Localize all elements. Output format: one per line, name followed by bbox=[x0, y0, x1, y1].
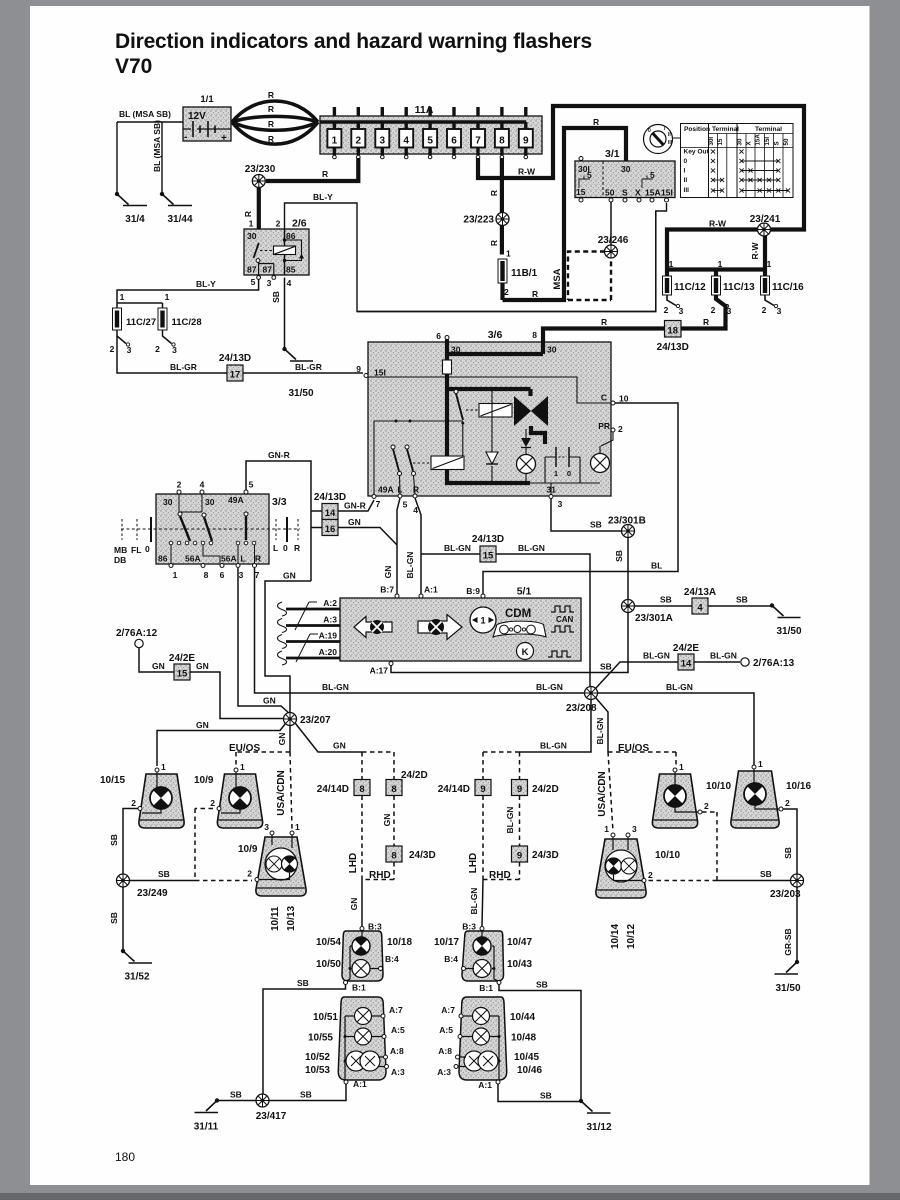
svg-text:4: 4 bbox=[200, 480, 205, 490]
connector 23/230 bbox=[252, 175, 265, 188]
svg-text:BL-GN: BL-GN bbox=[444, 543, 471, 553]
wire BL-Y relay pin2 to 3/1 pin 15I bbox=[285, 203, 667, 312]
svg-text:31/12: 31/12 bbox=[586, 1122, 611, 1133]
svg-text:9: 9 bbox=[523, 136, 529, 147]
svg-text:A:1: A:1 bbox=[478, 1080, 492, 1090]
svg-text:1: 1 bbox=[718, 259, 723, 269]
turn signal switch 3/3 bbox=[114, 480, 300, 581]
svg-text:B:9: B:9 bbox=[466, 586, 480, 596]
svg-text:56A: 56A bbox=[221, 554, 237, 564]
svg-text:0: 0 bbox=[145, 544, 150, 554]
svg-text:A:5: A:5 bbox=[391, 1025, 405, 1035]
svg-text:10/16: 10/16 bbox=[786, 781, 811, 792]
svg-text:23/208: 23/208 bbox=[566, 703, 597, 714]
svg-text:11B/1: 11B/1 bbox=[511, 268, 538, 279]
svg-text:K: K bbox=[522, 647, 529, 658]
wire BL (MSA SB) battery to grounds bbox=[117, 122, 183, 193]
svg-text:180: 180 bbox=[115, 1150, 135, 1164]
svg-text:10/17: 10/17 bbox=[434, 937, 459, 948]
connector 23/223 bbox=[496, 213, 509, 226]
svg-text:R: R bbox=[489, 190, 499, 196]
fuse 4 (11A) bbox=[399, 107, 413, 159]
svg-text:Position: Position bbox=[684, 126, 710, 133]
svg-text:X: X bbox=[635, 188, 641, 198]
svg-text:R: R bbox=[601, 317, 607, 327]
svg-text:49A: 49A bbox=[228, 495, 244, 505]
connector 23/207 bbox=[284, 713, 297, 726]
svg-text:B:4: B:4 bbox=[385, 954, 399, 964]
svg-text:15I: 15I bbox=[374, 368, 386, 378]
svg-text:Key Out: Key Out bbox=[684, 149, 710, 156]
front left indicator 10/15 bbox=[100, 762, 184, 828]
svg-text:87: 87 bbox=[247, 265, 257, 275]
svg-text:10/48: 10/48 bbox=[511, 1033, 536, 1044]
svg-text:R: R bbox=[268, 119, 274, 129]
svg-text:30: 30 bbox=[621, 164, 631, 174]
svg-text:5/1: 5/1 bbox=[517, 586, 532, 598]
svg-text:+: + bbox=[221, 133, 227, 144]
svg-text:PR: PR bbox=[598, 421, 610, 431]
wire SB 10/54 B:1 to 23/417 bbox=[263, 985, 346, 1095]
side marker lamp 10/17 (10/47 10/43) bbox=[434, 922, 532, 994]
svg-text:16: 16 bbox=[325, 524, 336, 535]
svg-text:24/2E: 24/2E bbox=[169, 653, 195, 664]
svg-text:10/50: 10/50 bbox=[316, 959, 341, 970]
svg-text:A:2: A:2 bbox=[323, 598, 337, 608]
svg-text:12V: 12V bbox=[188, 111, 206, 122]
svg-text:2/76A:13: 2/76A:13 bbox=[753, 658, 795, 669]
svg-text:1/1: 1/1 bbox=[200, 94, 214, 105]
svg-text:FL: FL bbox=[131, 545, 141, 555]
svg-text:L: L bbox=[240, 554, 245, 564]
svg-text:24/14D: 24/14D bbox=[438, 784, 470, 795]
svg-text:GN: GN bbox=[277, 733, 287, 746]
svg-text:R: R bbox=[255, 554, 261, 564]
svg-text:BL-GN: BL-GN bbox=[405, 552, 415, 579]
svg-text:GN-R: GN-R bbox=[268, 450, 290, 460]
svg-text:1: 1 bbox=[173, 570, 178, 580]
svg-text:31/52: 31/52 bbox=[124, 972, 149, 983]
svg-text:LHD: LHD bbox=[348, 853, 359, 874]
svg-text:A:1: A:1 bbox=[424, 585, 438, 595]
wire SB 23/301B to 23/301A bbox=[627, 538, 629, 600]
svg-text:3: 3 bbox=[264, 822, 269, 832]
svg-text:4: 4 bbox=[697, 603, 703, 614]
svg-text:A:8: A:8 bbox=[390, 1046, 404, 1056]
ground 31/11 bbox=[194, 1098, 219, 1132]
svg-text:15: 15 bbox=[483, 551, 494, 562]
svg-text:0: 0 bbox=[684, 158, 688, 165]
svg-text:SB: SB bbox=[109, 834, 119, 846]
wire SB 23/417 to ground 31/11 bbox=[217, 1100, 256, 1102]
svg-text:III: III bbox=[684, 187, 690, 194]
svg-text:30: 30 bbox=[205, 497, 215, 507]
wire GN 3/6 pin L to CDM B:7 bbox=[397, 498, 400, 594]
svg-text:R: R bbox=[268, 134, 274, 144]
wire GR-SB 23/203 to ground 31/50 bbox=[796, 887, 798, 962]
svg-text:5: 5 bbox=[427, 136, 433, 147]
svg-text:1: 1 bbox=[480, 616, 485, 626]
svg-text:31/50: 31/50 bbox=[775, 983, 800, 994]
wire BL-GN branch to 15 24/13D to 23/208 bbox=[421, 554, 590, 687]
wire BL-Y relay pin5 to fuses 11C/27 11C/28 bbox=[117, 280, 259, 309]
svg-text:DB: DB bbox=[114, 555, 126, 565]
connector 23/246 bbox=[605, 245, 618, 258]
fuse 11C/27 bbox=[110, 308, 156, 355]
fuse 7 (11A) bbox=[471, 107, 485, 159]
svg-text:BL-GN: BL-GN bbox=[505, 807, 515, 834]
svg-text:BL-GN: BL-GN bbox=[643, 651, 670, 661]
wire SB 10/17 B:1 to ground net bbox=[499, 985, 581, 1101]
wire MSA dashed 23/246 bbox=[568, 252, 611, 301]
svg-text:85: 85 bbox=[286, 265, 296, 275]
svg-text:15A: 15A bbox=[755, 134, 762, 146]
svg-text:BL-GR: BL-GR bbox=[170, 362, 197, 372]
connector 16 24/13D bbox=[322, 520, 338, 536]
svg-text:1: 1 bbox=[295, 822, 300, 832]
svg-text:B:4: B:4 bbox=[444, 954, 458, 964]
svg-text:GN: GN bbox=[349, 898, 359, 911]
svg-text:10/44: 10/44 bbox=[510, 1012, 535, 1023]
svg-text:II: II bbox=[684, 177, 688, 184]
svg-text:3: 3 bbox=[267, 278, 272, 288]
svg-text:R: R bbox=[703, 317, 709, 327]
svg-text:SB: SB bbox=[300, 1090, 312, 1100]
svg-text:BL (MSA SB): BL (MSA SB) bbox=[119, 109, 171, 119]
svg-text:1: 1 bbox=[679, 762, 684, 772]
front right indicator 10/10 bbox=[652, 762, 731, 828]
svg-text:7: 7 bbox=[376, 499, 381, 509]
wire BL-GN 23/208 to 10/16 bbox=[598, 693, 755, 765]
wire BL-GN 3/6 pin R to CDM A:1 bbox=[415, 498, 421, 594]
svg-text:23/301B: 23/301B bbox=[608, 516, 646, 527]
wire 15I net to 3/6 bbox=[357, 211, 656, 312]
svg-text:24/13A: 24/13A bbox=[684, 587, 716, 598]
svg-text:24/14D: 24/14D bbox=[317, 784, 349, 795]
svg-text:23/223: 23/223 bbox=[463, 215, 494, 226]
svg-text:-: - bbox=[184, 132, 187, 143]
wire BL-GN 23/208 down to right lamp feeds bbox=[520, 700, 592, 753]
svg-text:I: I bbox=[684, 168, 686, 175]
svg-text:8: 8 bbox=[204, 570, 209, 580]
svg-text:15I: 15I bbox=[661, 188, 673, 198]
svg-text:10/46: 10/46 bbox=[517, 1065, 542, 1076]
svg-text:11C/13: 11C/13 bbox=[723, 282, 755, 293]
svg-text:GN: GN bbox=[333, 741, 346, 751]
svg-text:2: 2 bbox=[704, 801, 709, 811]
svg-text:7: 7 bbox=[255, 570, 260, 580]
svg-text:11C/12: 11C/12 bbox=[674, 282, 706, 293]
connector 17 24/13D bbox=[219, 353, 251, 381]
svg-text:A:7: A:7 bbox=[441, 1005, 455, 1015]
svg-text:CAN: CAN bbox=[556, 615, 574, 624]
svg-text:R-W: R-W bbox=[518, 167, 536, 177]
svg-text:3: 3 bbox=[679, 306, 684, 316]
rear lamp cluster 10/44 10/48 10/45 10/46 bbox=[437, 997, 542, 1090]
svg-text:10/12: 10/12 bbox=[626, 924, 637, 949]
svg-text:4: 4 bbox=[403, 136, 409, 147]
svg-text:10/10: 10/10 bbox=[655, 850, 680, 861]
svg-text:2: 2 bbox=[648, 870, 653, 880]
svg-text:14: 14 bbox=[325, 508, 336, 519]
svg-text:SB: SB bbox=[760, 869, 772, 879]
svg-text:5: 5 bbox=[251, 277, 256, 287]
svg-text:31/4: 31/4 bbox=[125, 214, 145, 225]
svg-text:CDM: CDM bbox=[505, 608, 531, 620]
svg-text:S: S bbox=[773, 141, 780, 145]
svg-text:SB: SB bbox=[590, 520, 602, 530]
svg-text:50: 50 bbox=[605, 188, 615, 198]
ground 31/50 (right bottom) bbox=[775, 960, 801, 994]
svg-text:1: 1 bbox=[604, 824, 609, 834]
svg-text:2: 2 bbox=[155, 344, 160, 354]
svg-text:23/207: 23/207 bbox=[300, 715, 331, 726]
svg-text:0: 0 bbox=[567, 469, 571, 478]
svg-text:24/2D: 24/2D bbox=[532, 784, 559, 795]
svg-text:B:1: B:1 bbox=[479, 983, 493, 993]
svg-text:15: 15 bbox=[177, 669, 188, 680]
svg-text:31: 31 bbox=[547, 485, 557, 495]
svg-text:BL-GN: BL-GN bbox=[518, 543, 545, 553]
svg-text:15: 15 bbox=[717, 138, 724, 145]
svg-text:SB: SB bbox=[536, 980, 548, 990]
hazard flasher module 3/6 bbox=[366, 329, 613, 496]
svg-text:GN: GN bbox=[383, 566, 393, 579]
svg-text:1: 1 bbox=[758, 759, 763, 769]
svg-text:86: 86 bbox=[158, 554, 168, 564]
svg-text:24/3D: 24/3D bbox=[532, 850, 559, 861]
svg-text:30: 30 bbox=[547, 345, 557, 355]
wire SB 10/16 10/10 to 23/203 bbox=[783, 809, 797, 875]
svg-text:2: 2 bbox=[785, 798, 790, 808]
svg-text:30: 30 bbox=[737, 138, 744, 145]
wire BL-GR 11C/27 to 3/6 pin 9 bbox=[117, 336, 363, 373]
svg-text:1: 1 bbox=[669, 259, 674, 269]
svg-text:A:3: A:3 bbox=[391, 1067, 405, 1077]
svg-text:USA/CDN: USA/CDN bbox=[597, 771, 608, 817]
svg-text:2: 2 bbox=[276, 219, 281, 229]
svg-text:SB: SB bbox=[158, 869, 170, 879]
svg-text:GN: GN bbox=[283, 571, 296, 581]
svg-text:BL-GN: BL-GN bbox=[540, 741, 567, 751]
ignition position table bbox=[681, 124, 794, 198]
svg-text:1: 1 bbox=[165, 292, 170, 302]
svg-text:BL-GN: BL-GN bbox=[322, 682, 349, 692]
svg-text:BL-Y: BL-Y bbox=[313, 192, 333, 202]
svg-text:2/76A:12: 2/76A:12 bbox=[116, 628, 158, 639]
svg-text:R-W: R-W bbox=[709, 219, 727, 229]
svg-text:10: 10 bbox=[619, 394, 629, 404]
svg-text:R: R bbox=[268, 90, 274, 100]
3/6 pins bbox=[364, 374, 368, 378]
fuse 3 (11A) bbox=[375, 107, 389, 159]
svg-text:23/241: 23/241 bbox=[750, 214, 781, 225]
svg-text:GN: GN bbox=[152, 661, 165, 671]
svg-text:S: S bbox=[622, 188, 628, 198]
svg-text:10/43: 10/43 bbox=[507, 959, 532, 970]
svg-text:10/9: 10/9 bbox=[194, 775, 214, 786]
svg-text:14: 14 bbox=[681, 659, 692, 670]
svg-text:11C/27: 11C/27 bbox=[126, 317, 156, 328]
svg-text:15A: 15A bbox=[645, 188, 661, 198]
svg-text:10/14: 10/14 bbox=[610, 924, 621, 949]
wire GN 23/207 down EU/OS USA/CDN bbox=[289, 726, 291, 753]
wire SB 23/249 to ground 31/52 bbox=[122, 887, 124, 951]
svg-text:1: 1 bbox=[161, 762, 166, 772]
fuse 11C/12 bbox=[663, 276, 707, 316]
svg-text:2: 2 bbox=[247, 869, 252, 879]
svg-text:10/15: 10/15 bbox=[100, 775, 125, 786]
connector 4 24/13A bbox=[684, 587, 716, 614]
fuse 6 (11A) bbox=[447, 107, 461, 159]
connector 23/208 bbox=[585, 687, 598, 700]
svg-text:10/53: 10/53 bbox=[305, 1065, 330, 1076]
svg-text:2: 2 bbox=[131, 798, 136, 808]
svg-text:B:7: B:7 bbox=[380, 585, 394, 595]
wire BL 3/6 pin C/10 to CDM B:9 bbox=[483, 403, 678, 594]
fuse 11C/28 bbox=[155, 308, 201, 355]
svg-text:1: 1 bbox=[554, 469, 558, 478]
svg-text:30I: 30I bbox=[708, 137, 715, 146]
svg-text:A:1: A:1 bbox=[353, 1079, 367, 1089]
connector 23/249 bbox=[117, 874, 130, 887]
svg-text:GN: GN bbox=[348, 517, 361, 527]
svg-text:5: 5 bbox=[403, 500, 408, 510]
svg-text:0: 0 bbox=[283, 543, 288, 553]
connector 14 24/13D bbox=[314, 492, 346, 520]
svg-text:10/55: 10/55 bbox=[308, 1033, 333, 1044]
wire SB CDM A:17 to 23/301A bbox=[389, 662, 393, 666]
svg-text:8: 8 bbox=[391, 784, 396, 795]
svg-text:SB: SB bbox=[297, 978, 309, 988]
svg-text:10/13: 10/13 bbox=[286, 906, 297, 931]
svg-text:A:3: A:3 bbox=[437, 1067, 451, 1077]
wire GN 23/207 to 10/15 bbox=[157, 724, 286, 767]
svg-text:10/51: 10/51 bbox=[313, 1012, 338, 1023]
svg-text:23/246: 23/246 bbox=[598, 235, 629, 246]
svg-text:A:7: A:7 bbox=[389, 1005, 403, 1015]
svg-text:BL-GN: BL-GN bbox=[536, 682, 563, 692]
svg-text:1: 1 bbox=[120, 292, 125, 302]
connector 23/241 bbox=[758, 223, 771, 236]
connector 15 24/2E bbox=[169, 653, 195, 680]
svg-text:3: 3 bbox=[127, 345, 132, 355]
svg-text:23/249: 23/249 bbox=[137, 888, 168, 899]
svg-text:1: 1 bbox=[506, 249, 511, 259]
svg-text:GN-R: GN-R bbox=[344, 501, 366, 511]
wire 3/1 pin 50 to 23/246 bbox=[610, 202, 612, 245]
wire GN-R 3/3 pin5 to 24/13D 14/16 and down bbox=[246, 461, 322, 581]
svg-text:A:3: A:3 bbox=[323, 615, 337, 625]
svg-text:10/9: 10/9 bbox=[238, 844, 258, 855]
svg-text:R: R bbox=[413, 485, 419, 495]
svg-text:10/54: 10/54 bbox=[316, 937, 341, 948]
combo lamp 10/9 (10/11 10/13) bbox=[238, 822, 306, 931]
svg-text:10/52: 10/52 bbox=[305, 1052, 330, 1063]
wire GN to 23/207 bbox=[265, 581, 311, 713]
wire SB right rear A:1 to ground 31/12 bbox=[498, 1084, 581, 1102]
rear lamp cluster 10/51 10/55 10/52 10/53 bbox=[305, 997, 405, 1089]
wire SB 23/301A to ground via 4 24/13A bbox=[635, 605, 773, 607]
svg-text:10/18: 10/18 bbox=[387, 937, 412, 948]
wire R fuse8 to 11B/1 to 3/1 pin 30 bbox=[502, 128, 626, 300]
svg-text:6: 6 bbox=[220, 570, 225, 580]
ground 31/50 (24/13A) bbox=[770, 603, 802, 637]
svg-text:24/3D: 24/3D bbox=[409, 850, 436, 861]
svg-text:8: 8 bbox=[499, 136, 505, 147]
combo lamp 10/10 (10/14 10/12) bbox=[596, 824, 681, 949]
svg-text:3/6: 3/6 bbox=[488, 329, 503, 341]
svg-text:9: 9 bbox=[517, 784, 522, 795]
svg-text:24/2D: 24/2D bbox=[401, 770, 428, 781]
svg-text:MSA: MSA bbox=[552, 268, 563, 289]
svg-text:L: L bbox=[273, 543, 278, 553]
svg-text:4: 4 bbox=[287, 278, 292, 288]
svg-text:24/2E: 24/2E bbox=[673, 643, 699, 654]
svg-text:1: 1 bbox=[249, 219, 254, 229]
svg-text:BL-GN: BL-GN bbox=[595, 718, 605, 745]
side marker lamp 10/54 10/50 (10/18) bbox=[316, 922, 412, 993]
svg-text:A:5: A:5 bbox=[439, 1025, 453, 1035]
svg-text:9: 9 bbox=[517, 851, 522, 862]
svg-text:SB: SB bbox=[660, 595, 672, 605]
svg-text:2: 2 bbox=[664, 305, 669, 315]
fuse 5 (11A) bbox=[423, 107, 437, 159]
fuse 1 (11A) bbox=[327, 107, 341, 159]
svg-text:A:8: A:8 bbox=[438, 1046, 452, 1056]
svg-text:BL-GN: BL-GN bbox=[666, 682, 693, 692]
svg-text:GN: GN bbox=[263, 696, 276, 706]
connector 23/301A bbox=[622, 600, 635, 613]
wire BL-GN 23/208 to 14 24/2E to 2/76A:13 bbox=[596, 662, 741, 689]
wire SB 23/249 to 10/9 pin2 bbox=[130, 880, 196, 882]
svg-text:2: 2 bbox=[177, 480, 182, 490]
svg-text:R: R bbox=[294, 543, 300, 553]
svg-text:R: R bbox=[322, 169, 328, 179]
fuse 11C/16 bbox=[761, 276, 805, 316]
svg-text:87: 87 bbox=[263, 265, 273, 275]
svg-text:BL (MSA SB): BL (MSA SB) bbox=[152, 120, 162, 172]
svg-text:24/13D: 24/13D bbox=[314, 492, 346, 503]
connector 2/76A:13 bbox=[741, 658, 749, 666]
svg-text:2: 2 bbox=[110, 344, 115, 354]
svg-text:R: R bbox=[593, 117, 599, 127]
svg-text:2: 2 bbox=[504, 287, 509, 297]
svg-text:A:17: A:17 bbox=[370, 666, 389, 676]
svg-text:RHD: RHD bbox=[489, 870, 511, 881]
svg-text:3: 3 bbox=[632, 824, 637, 834]
battery 1/1 bbox=[183, 94, 231, 144]
svg-text:7: 7 bbox=[475, 136, 481, 147]
svg-text:24/13D: 24/13D bbox=[657, 342, 689, 353]
svg-text:2: 2 bbox=[356, 136, 362, 147]
svg-text:USA/CDN: USA/CDN bbox=[276, 770, 287, 816]
wire GN 3/3 pin3 to 23/207 bbox=[238, 568, 290, 714]
svg-text:10/47: 10/47 bbox=[507, 937, 532, 948]
svg-text:24/13D: 24/13D bbox=[472, 534, 504, 545]
svg-text:Terminal: Terminal bbox=[755, 126, 782, 133]
svg-text:2: 2 bbox=[618, 424, 623, 434]
svg-text:B:3: B:3 bbox=[368, 922, 382, 932]
svg-text:LHD: LHD bbox=[468, 853, 479, 874]
svg-text:R: R bbox=[243, 211, 253, 217]
connector 23/417 bbox=[256, 1094, 269, 1107]
wire R 23/230 to relay 2/6 pin 1 bbox=[257, 188, 261, 244]
fuse 8 (11A) bbox=[495, 107, 509, 159]
3/6 internal thin wiring bbox=[366, 377, 611, 403]
connector 23/301B bbox=[622, 525, 635, 538]
svg-text:RHD: RHD bbox=[369, 870, 391, 881]
